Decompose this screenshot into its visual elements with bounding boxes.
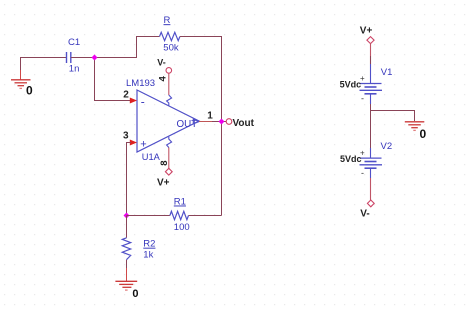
svg-text:1k: 1k [143, 249, 153, 260]
V- power symbol [367, 200, 374, 207]
svg-text:5Vdc: 5Vdc [340, 80, 362, 90]
svg-text:R1: R1 [174, 197, 186, 208]
resistor R1 [170, 211, 189, 219]
svg-text:1: 1 [207, 110, 213, 121]
wire V+ to V1 [370, 44, 372, 74]
junction node A [92, 55, 98, 61]
svg-text:2: 2 [123, 89, 129, 100]
op-amp U1 triangle [137, 90, 199, 152]
svg-text:V-: V- [157, 58, 166, 68]
wire node B to R2 [126, 216, 128, 238]
wire node A to pin 2 [95, 58, 132, 101]
ground stem (input) [20, 70, 22, 80]
wire C1 to node A to feedback corner [71, 37, 160, 58]
svg-text:V2: V2 [381, 141, 393, 152]
resistor R [160, 32, 180, 40]
svg-text:R: R [164, 15, 171, 26]
V+ power symbol [367, 37, 374, 44]
svg-text:0: 0 [420, 127, 427, 141]
wire V2 to V- [370, 178, 372, 200]
svg-text:C1: C1 [68, 37, 80, 48]
svg-text:-: - [141, 95, 145, 109]
junction node B [124, 213, 130, 219]
wire V1 to V2 [370, 104, 372, 148]
svg-text:0: 0 [132, 288, 138, 300]
battery V1 [360, 74, 383, 105]
svg-text:R2: R2 [143, 239, 155, 250]
wire R1 to output rail [189, 215, 222, 217]
svg-text:V+: V+ [360, 26, 373, 37]
wire branch to supply ground [371, 111, 415, 122]
svg-text:V-: V- [360, 209, 369, 220]
svg-text:3: 3 [123, 130, 129, 141]
svg-text:Vout: Vout [233, 118, 255, 129]
wire R2 to ground [126, 260, 128, 268]
pin 8 power pin [167, 137, 172, 169]
svg-text:4: 4 [158, 76, 169, 82]
svg-text:LM193: LM193 [126, 78, 155, 89]
svg-text:-: - [361, 94, 364, 104]
Vout terminal bubble [226, 119, 232, 125]
svg-text:50k: 50k [163, 43, 179, 54]
ground 0 (input) [11, 80, 31, 89]
wire input ground to C1 [21, 58, 67, 71]
pin 2 input arrow [130, 98, 137, 104]
ground 0 (supply) [405, 122, 425, 131]
junction node Vout [219, 119, 225, 125]
resistor R2 [122, 238, 130, 260]
svg-text:V1: V1 [381, 67, 393, 78]
svg-text:+: + [140, 138, 146, 150]
svg-text:0: 0 [26, 84, 33, 98]
V- power bubble of U1 [166, 68, 172, 74]
wire node B to R1 [127, 215, 170, 217]
wire pin 3 to node B [127, 143, 132, 216]
V+ power bubble of U1 [165, 168, 172, 175]
svg-text:OUT: OUT [177, 119, 198, 130]
svg-text:-: - [361, 168, 364, 178]
svg-text:1n: 1n [69, 64, 80, 75]
svg-text:V+: V+ [157, 177, 170, 188]
svg-text:8: 8 [159, 160, 170, 165]
battery V2 [360, 148, 383, 178]
pin 4 power pin [167, 73, 172, 106]
ground 0 (below R2) [115, 268, 137, 290]
wire output pin 1 to node Vout [199, 121, 226, 123]
svg-text:5Vdc: 5Vdc [340, 154, 362, 164]
wire R to output rail [180, 37, 222, 216]
pin 3 input arrow [130, 140, 137, 146]
svg-text:100: 100 [174, 222, 190, 233]
output pin arrow [193, 119, 199, 124]
capacitor C1 [67, 52, 71, 63]
